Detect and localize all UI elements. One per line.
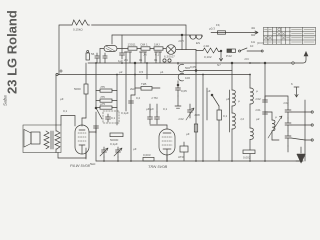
resistor box R50 vertical xyxy=(84,84,88,94)
wire rail x86 xyxy=(85,63,87,118)
wire coil L2 xyxy=(249,75,251,151)
wire coil right small xyxy=(265,112,279,140)
component P02 xyxy=(226,49,236,58)
wire if line xyxy=(184,70,233,72)
wire R mains left xyxy=(196,50,203,52)
wire chain 4 xyxy=(163,48,166,50)
svg-text:µ: µ xyxy=(275,115,277,119)
terminal block left xyxy=(86,51,89,61)
capacitor C tube2b xyxy=(155,112,160,124)
junction L1 xyxy=(231,62,233,64)
svg-text:TRN 5V0B: TRN 5V0B xyxy=(148,164,167,169)
wire link 95 xyxy=(131,94,135,96)
trimmer cap T1 xyxy=(100,147,108,157)
switch S2 xyxy=(95,107,102,133)
svg-text:1Ω: 1Ω xyxy=(251,40,256,44)
svg-text:0,15kΩ: 0,15kΩ xyxy=(73,28,83,32)
svg-text:µF: µF xyxy=(226,97,230,101)
wire rail x126 xyxy=(125,63,127,111)
svg-text:1µF: 1µF xyxy=(118,59,123,63)
cap bank C b2 xyxy=(285,118,291,131)
svg-text:µ1: µ1 xyxy=(160,70,164,74)
svg-text:(0 D): (0 D) xyxy=(257,41,264,45)
junction dots bottom rail xyxy=(103,160,266,162)
junction loops xyxy=(189,35,203,37)
pickup symbol xyxy=(291,82,299,97)
resistor box 5000 xyxy=(110,133,123,137)
wire link right rows xyxy=(291,112,305,140)
capacitor C 178 xyxy=(176,84,181,96)
wire speaker to tube1 xyxy=(61,116,75,127)
ground main xyxy=(297,147,305,163)
cap bank C b3 xyxy=(285,131,291,146)
svg-text:56: 56 xyxy=(91,52,95,56)
stub pair a xyxy=(124,52,132,63)
capacitor x131 xyxy=(129,101,134,103)
resistor box right xyxy=(217,110,222,120)
svg-text:N7: N7 xyxy=(217,63,221,67)
wire rail x135 xyxy=(134,63,136,95)
svg-text:µ: µ xyxy=(256,89,258,93)
svg-text:0,05: 0,05 xyxy=(181,89,187,93)
wire box right xyxy=(218,106,220,161)
wire antenna feed xyxy=(250,62,260,64)
terminal rail right xyxy=(304,100,306,161)
svg-text:2kΩ: 2kΩ xyxy=(130,87,136,91)
svg-text:µ2: µ2 xyxy=(119,70,123,74)
wire chain 2 xyxy=(137,48,141,50)
svg-text:0,1: 0,1 xyxy=(63,109,68,113)
wire bottom rail xyxy=(96,160,303,162)
fuse F1 xyxy=(211,31,226,34)
svg-text:J.08: J.08 xyxy=(194,113,200,117)
coil L1a xyxy=(232,90,235,106)
wire tube2 cap link xyxy=(150,124,167,126)
svg-text:23 LG Roland: 23 LG Roland xyxy=(5,10,20,94)
svg-text:J,2: J,2 xyxy=(240,117,244,121)
wire left rail down xyxy=(55,75,57,126)
wire ground link xyxy=(296,160,303,162)
wire second rail drop xyxy=(121,35,123,48)
svg-text:J.01: J.01 xyxy=(255,108,261,112)
svg-text:µ2: µ2 xyxy=(256,117,260,121)
svg-text:0,2: 0,2 xyxy=(136,96,141,100)
wire fuse to arrow xyxy=(226,32,255,34)
svg-text:13011: 13011 xyxy=(128,43,136,47)
plus terminal xyxy=(56,70,63,76)
svg-text:5kΩ: 5kΩ xyxy=(90,162,96,166)
capacitor heater2 xyxy=(103,53,107,63)
wire mid rail x96 xyxy=(95,63,97,107)
terminal circle antenna xyxy=(292,62,294,64)
electrolytic C-chain xyxy=(104,46,117,52)
wire rail x196 xyxy=(195,50,197,162)
resistor small box bottom xyxy=(243,150,255,154)
resistor box bottom2 xyxy=(143,153,154,161)
svg-text:µ: µ xyxy=(238,99,240,103)
wire rail x207 xyxy=(206,88,208,120)
arrow mains xyxy=(254,31,258,34)
svg-text:P.02: P.02 xyxy=(226,54,232,58)
transformer output primary xyxy=(44,131,49,149)
svg-text:1MJ: 1MJ xyxy=(154,43,160,47)
svg-text:µ0,3: µ0,3 xyxy=(209,27,215,31)
svg-text:0,1µF: 0,1µF xyxy=(121,111,129,115)
antenna arrow xyxy=(250,51,308,63)
resistor R-top xyxy=(72,20,90,25)
wire top rail xyxy=(59,25,72,75)
wire main rail y74 xyxy=(58,74,250,76)
svg-text:4Ω: 4Ω xyxy=(251,26,256,30)
svg-text:0,5: 0,5 xyxy=(139,70,144,74)
junction drop mains xyxy=(217,50,223,67)
svg-text:DM 1: DM 1 xyxy=(141,43,148,47)
wire trimmers to rail xyxy=(104,157,118,161)
svg-text:0,1: 0,1 xyxy=(111,116,116,120)
wire mid2 xyxy=(135,87,160,89)
resistor box x196 xyxy=(194,124,197,132)
wire rail x178 xyxy=(177,81,179,85)
voltage table xyxy=(264,27,316,44)
loop jack a xyxy=(190,36,196,39)
svg-text:0,1: 0,1 xyxy=(163,107,168,111)
wire link caps top xyxy=(265,96,288,100)
speaker LS xyxy=(24,130,40,148)
svg-text:0,1: 0,1 xyxy=(155,53,160,57)
svg-text:µF: µF xyxy=(133,147,137,151)
resistor R mains zigzag xyxy=(203,48,221,53)
resistor mid h3 xyxy=(96,102,117,109)
capacitor C right2 xyxy=(263,112,268,114)
svg-text:J.02: J.02 xyxy=(283,101,289,105)
junction x135 xyxy=(134,62,136,64)
wire box bottom xyxy=(249,154,251,161)
svg-text:0,1µF: 0,1µF xyxy=(110,142,118,146)
wire coil top link xyxy=(177,63,179,65)
lamp LP1 xyxy=(166,45,176,55)
svg-text:JN: JN xyxy=(143,53,147,57)
resistor box chain2 xyxy=(141,47,150,50)
wire tube1 anode link xyxy=(89,131,96,133)
svg-text:0,1: 0,1 xyxy=(223,114,228,118)
wire transformer bottom xyxy=(56,149,57,153)
wire tube1 top xyxy=(81,118,83,126)
svg-text:TkB: TkB xyxy=(141,82,146,86)
capacitor C tube2a xyxy=(148,112,153,124)
svg-text:9Ω: 9Ω xyxy=(251,33,256,37)
wire second rail xyxy=(111,35,113,44)
wire left chain rail xyxy=(99,49,101,64)
wire link caps bottom xyxy=(287,146,289,152)
coil right small xyxy=(272,120,275,131)
svg-text:5060: 5060 xyxy=(74,87,81,91)
junction dots rail63 xyxy=(95,62,251,64)
wire coil L1 bottom xyxy=(231,129,233,161)
stub pair c xyxy=(154,52,162,63)
wire rail x203 xyxy=(202,75,204,162)
wire top rail right xyxy=(92,25,187,50)
variable cap V2 grid xyxy=(186,104,194,120)
tube V2 xyxy=(159,129,175,161)
terminal t3 xyxy=(305,139,313,141)
coil L1b xyxy=(232,113,235,129)
resistor mid h1 xyxy=(96,85,117,92)
speaker box xyxy=(23,125,61,153)
wire tube2 caps top xyxy=(150,104,157,112)
switch S3 xyxy=(211,94,219,106)
coil IF1a xyxy=(178,64,190,72)
svg-text:6,3/0,07: 6,3/0,07 xyxy=(164,55,175,59)
svg-text:0,05: 0,05 xyxy=(190,65,196,69)
dashed box filter xyxy=(103,111,119,123)
wire rail x147 xyxy=(146,63,148,79)
wire rail x117 xyxy=(116,75,118,126)
transformer output secondary xyxy=(55,131,60,149)
capacitor C mid xyxy=(94,126,99,128)
transformer output core xyxy=(51,131,53,149)
loop b xyxy=(168,59,171,62)
coil IF1b xyxy=(178,73,190,81)
wire mid rail x96 low xyxy=(95,128,97,161)
junction chain xyxy=(181,34,183,36)
wire transformer top xyxy=(56,125,57,131)
wire rail x131 xyxy=(130,95,132,161)
capacitor in box xyxy=(106,114,111,122)
chain wire xyxy=(100,48,104,50)
tube V1 xyxy=(75,125,89,159)
wire tube2 bottom xyxy=(166,155,168,161)
cap bank C b1 xyxy=(285,105,291,118)
svg-text:0,003: 0,003 xyxy=(143,153,151,157)
svg-text:µF: µF xyxy=(186,132,190,136)
svg-text:J75: J75 xyxy=(100,85,105,89)
resistor box chain1 xyxy=(128,47,137,50)
wire rail x265 xyxy=(264,63,266,161)
variable arrow right xyxy=(268,116,282,138)
wire rail y63 xyxy=(88,62,250,64)
svg-text:2N: 2N xyxy=(124,58,128,62)
wire second rail horizontal xyxy=(112,34,202,36)
wire chain up xyxy=(181,35,183,50)
svg-text:0,102: 0,102 xyxy=(204,55,212,59)
svg-text:ES: ES xyxy=(196,41,200,45)
loop jack b xyxy=(196,36,202,39)
svg-text:µ75: µ75 xyxy=(100,102,105,106)
svg-text:ATM: ATM xyxy=(178,155,185,159)
wire coil L1 mid xyxy=(231,106,233,113)
capacitor heater1 xyxy=(91,52,99,63)
svg-text:J.02: J.02 xyxy=(178,117,184,121)
wire coil L1 top xyxy=(231,63,233,90)
capacitor C-drop xyxy=(120,49,125,60)
svg-text:µF: µF xyxy=(207,89,211,93)
svg-text:100: 100 xyxy=(185,76,190,80)
switch S1 xyxy=(239,44,264,52)
terminal t1 xyxy=(305,111,313,113)
coil L2b xyxy=(250,128,253,139)
coil L1a core xyxy=(229,90,231,132)
wire tube1 link xyxy=(82,117,86,119)
ground stub x178 xyxy=(175,96,181,108)
svg-text:01: 01 xyxy=(139,58,143,62)
junction dots rail74 xyxy=(116,74,251,76)
svg-text:PiLW 5V08: PiLW 5V08 xyxy=(70,163,91,168)
svg-text:J.FY: J.FY xyxy=(178,39,184,43)
capacitor C right1 xyxy=(263,100,268,102)
resistor box chain3 xyxy=(154,47,163,50)
svg-text:10: 10 xyxy=(250,44,254,48)
coil L2a xyxy=(250,88,253,104)
wire chain 3 xyxy=(150,48,154,50)
stub pair b xyxy=(139,52,147,63)
junction x265 xyxy=(264,62,266,64)
wire tube1 bottom link xyxy=(58,152,86,158)
svg-text:J75: J75 xyxy=(100,95,105,99)
svg-text:6: 6 xyxy=(291,82,293,86)
svg-text:µF: µF xyxy=(60,97,64,101)
title Saba 23 LG Roland xyxy=(3,10,20,106)
svg-text:J.02: J.02 xyxy=(255,97,261,101)
wire chain 1 xyxy=(117,48,128,50)
trimmer cap T2 xyxy=(114,147,122,157)
component tube2 right xyxy=(178,142,188,161)
svg-text:01: 01 xyxy=(154,58,158,62)
terminal t2 xyxy=(305,124,313,126)
svg-text:Saba: Saba xyxy=(3,95,8,106)
svg-text:J.Fr: J.Fr xyxy=(244,57,249,61)
table cell marks xyxy=(264,28,314,42)
resistor mid h2 xyxy=(96,95,117,102)
svg-text:J,4Ω: J,4Ω xyxy=(203,44,210,48)
wire chain right xyxy=(176,49,196,51)
wire link caps t1 xyxy=(287,100,289,105)
loop a xyxy=(163,59,166,62)
wire tube2 top xyxy=(166,125,168,129)
svg-text:J.7M: J.7M xyxy=(151,96,158,100)
svg-text:FF,: FF, xyxy=(216,23,220,27)
resistor box mid2 xyxy=(141,87,152,91)
